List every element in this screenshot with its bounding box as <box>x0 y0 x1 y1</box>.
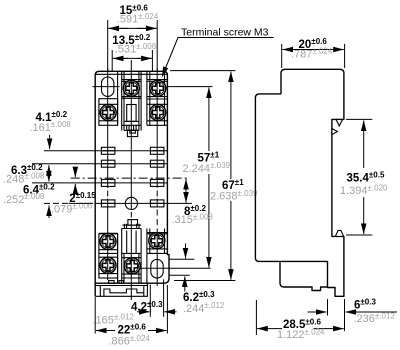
top block: castellated clip bottom <box>122 124 141 126</box>
dim 22 bottom <box>94 297 96 334</box>
svg-text:Terminal screw M3: Terminal screw M3 <box>181 26 269 38</box>
dim 57 right <box>167 86 212 88</box>
top block: inner top line <box>96 73 167 75</box>
dim 15 top <box>108 27 128 29</box>
dim 8 <box>185 179 187 191</box>
bottom block: castellated clip top <box>128 220 138 226</box>
dim 13.5 <box>113 57 128 59</box>
top block: col1 mounting oval slot <box>102 77 114 96</box>
side view: body outline <box>255 69 344 296</box>
dim 6 bottom right <box>327 299 329 316</box>
front view: top terminal column centerlines (15 dim extensions) <box>107 20 109 71</box>
dim 67 <box>170 70 235 72</box>
dim 20 top of side view <box>281 44 283 68</box>
bottom block: column separator walls <box>117 234 119 283</box>
middle area: relay pin socket holes <box>101 147 115 154</box>
top block: terminal screws <box>123 80 139 96</box>
datum center line (dash-dot) <box>71 177 189 179</box>
top block: clamp plate lines <box>122 80 141 82</box>
13.5 dim extension lines <box>111 50 113 71</box>
bottom block: col boxes <box>99 234 118 278</box>
center mounting hole <box>125 197 137 209</box>
bottom block: clamp plate lines <box>99 232 118 234</box>
dim 35.4 <box>346 118 372 120</box>
side view: DIN rail claw top <box>336 119 343 126</box>
top block: col2 box lines <box>123 72 125 131</box>
top block: col2 relay clip slot <box>127 105 136 122</box>
DIN rail foot <box>95 285 147 287</box>
front view: socket body outline <box>95 71 169 291</box>
bottom mounting oval slot <box>151 259 163 278</box>
bottom block: screws <box>100 234 116 250</box>
dim 2 <box>74 168 76 178</box>
top block: col3 box lines <box>149 72 151 126</box>
top block: column separator walls <box>117 72 119 126</box>
dim 28.5 bottom <box>255 300 257 335</box>
dim 4.2 (oval width) <box>149 285 151 317</box>
top block: col1 lower screw box <box>99 99 118 126</box>
side view: DIN rail claw bottom <box>335 230 343 236</box>
dim 6.2 (ear height) <box>169 258 195 260</box>
centerlines drawn on top of features <box>93 60 211 300</box>
